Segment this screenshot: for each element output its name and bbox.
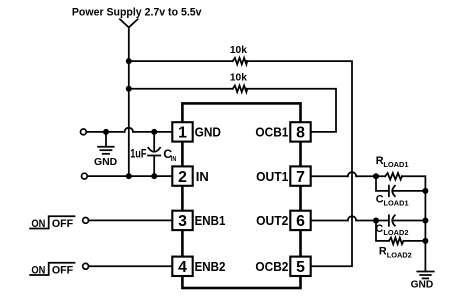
wire OUT1 row <box>311 175 348 177</box>
pin 4 box <box>172 257 192 276</box>
pin 8 box <box>290 122 310 141</box>
svg-text:IN: IN <box>196 169 209 184</box>
terminal circle ENB2 row <box>83 263 89 269</box>
node C_LOAD1 right junction <box>422 188 428 194</box>
svg-text:OFF: OFF <box>52 265 74 277</box>
node capacitor bottom junction <box>151 173 157 179</box>
node capacitor top junction <box>151 129 157 135</box>
resistor R 10k bottom <box>233 86 248 93</box>
svg-text:1: 1 <box>178 125 187 142</box>
svg-text:2: 2 <box>178 169 187 186</box>
wire ENB2 row <box>89 265 173 267</box>
power supply symbol <box>120 19 138 27</box>
svg-text:7: 7 <box>296 169 305 186</box>
svg-text:GND: GND <box>94 157 117 168</box>
svg-text:LOAD2: LOAD2 <box>387 251 412 260</box>
svg-text:1uF: 1uF <box>130 146 146 160</box>
ground symbol left <box>105 132 107 147</box>
pin 1 box <box>172 122 192 141</box>
svg-text:ENB1: ENB1 <box>195 213 226 228</box>
svg-text:GND: GND <box>195 125 221 140</box>
svg-text:10k: 10k <box>230 72 247 83</box>
node power-10k1 junction <box>126 58 132 64</box>
node GND tap junction <box>103 129 109 135</box>
pin 2 box <box>172 166 192 185</box>
resistor R_LOAD1 <box>385 173 402 180</box>
svg-text:4: 4 <box>178 259 187 276</box>
pin 7 box <box>290 166 310 185</box>
terminal circle ENB1 row <box>83 218 89 224</box>
capacitor C_IN 1uF <box>153 132 155 151</box>
pin 3 box <box>172 211 192 230</box>
node OUT1 junction <box>373 173 379 179</box>
wire OUT2 row <box>311 220 348 222</box>
svg-text:IN: IN <box>171 156 176 163</box>
ground symbol right <box>417 271 433 273</box>
svg-text:8: 8 <box>296 125 305 142</box>
svg-text:OUT1: OUT1 <box>256 169 288 184</box>
node power-IN junction <box>126 173 132 179</box>
svg-text:OFF: OFF <box>52 218 74 230</box>
resistor R 10k top <box>233 58 248 65</box>
wire power vertical <box>128 27 130 176</box>
node R_LOAD2 right junction <box>422 238 428 244</box>
wire GND row <box>86 131 124 133</box>
pin 6 box <box>290 211 310 230</box>
capacitor C_LOAD2 <box>388 215 390 226</box>
svg-text:OCB1: OCB1 <box>255 125 288 140</box>
node OUT2 junction <box>373 218 379 224</box>
wire hop over power line <box>125 128 133 132</box>
wire 10k1 row to OCB2 <box>129 60 233 62</box>
svg-text:5: 5 <box>296 259 305 276</box>
terminal circle GND row <box>81 129 87 135</box>
svg-text:OUT2: OUT2 <box>256 213 288 228</box>
resistor R_LOAD2 <box>376 221 389 241</box>
wire IN row <box>87 175 172 177</box>
svg-text:LOAD2: LOAD2 <box>383 228 408 237</box>
svg-text:10k: 10k <box>230 45 247 56</box>
wire ENB1 row <box>89 219 173 221</box>
wire hop over OCB2 line 2 <box>348 216 356 220</box>
svg-text:C: C <box>376 194 384 206</box>
svg-text:3: 3 <box>178 213 187 230</box>
wire 10k2 row to OCB1 <box>129 88 233 90</box>
svg-text:OCB2: OCB2 <box>255 259 288 274</box>
svg-text:Power Supply 2.7v to 5.5v: Power Supply 2.7v to 5.5v <box>72 7 202 19</box>
svg-text:R: R <box>379 246 387 258</box>
terminal circle IN row <box>82 173 88 179</box>
svg-text:LOAD1: LOAD1 <box>383 160 408 169</box>
wire hop over OCB2 line <box>348 172 356 176</box>
svg-text:6: 6 <box>296 213 305 230</box>
capacitor C_LOAD1 <box>376 176 388 191</box>
svg-text:ENB2: ENB2 <box>195 259 226 274</box>
node power-10k2 junction <box>126 86 132 92</box>
svg-text:GND: GND <box>411 280 434 291</box>
node C_LOAD2 right junction <box>422 218 428 224</box>
svg-text:LOAD1: LOAD1 <box>384 198 409 207</box>
pin 5 box <box>290 257 310 276</box>
wire right rail <box>424 191 426 272</box>
IC body U1 <box>182 103 300 288</box>
